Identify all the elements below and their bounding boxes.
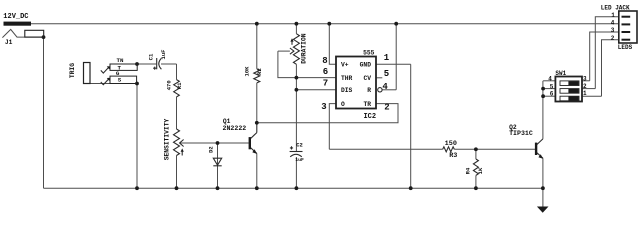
svg-text:10K: 10K (243, 66, 250, 77)
svg-text:D2: D2 (208, 146, 215, 153)
svg-text:1uF: 1uF (160, 50, 167, 60)
svg-text:SENSITIVITY: SENSITIVITY (164, 119, 171, 161)
svg-text:C1: C1 (147, 53, 154, 60)
svg-text:150: 150 (445, 140, 457, 148)
svg-text:555: 555 (363, 50, 375, 57)
svg-text:3: 3 (611, 27, 615, 34)
svg-text:470: 470 (165, 80, 172, 90)
svg-text:GND: GND (360, 62, 372, 69)
svg-text:1: 1 (611, 12, 615, 19)
svg-text:3: 3 (321, 102, 326, 112)
svg-text:1uF: 1uF (295, 157, 304, 163)
svg-text:O: O (341, 101, 345, 108)
svg-text:J1: J1 (5, 39, 13, 46)
svg-text:TRIG: TRIG (69, 63, 76, 78)
svg-text:4: 4 (382, 82, 388, 92)
svg-text:3: 3 (583, 75, 587, 82)
svg-text:2N2222: 2N2222 (223, 125, 247, 132)
svg-text:SW1: SW1 (555, 70, 566, 77)
svg-text:S: S (118, 76, 122, 83)
svg-text:DIS: DIS (341, 87, 353, 94)
svg-text:THR: THR (341, 75, 353, 82)
svg-text:4: 4 (611, 20, 615, 27)
svg-text:5: 5 (550, 83, 554, 90)
svg-text:2: 2 (384, 103, 389, 113)
svg-text:R4: R4 (465, 167, 472, 174)
svg-text:TN: TN (117, 57, 124, 64)
svg-text:6: 6 (323, 67, 328, 77)
svg-text:Q1: Q1 (223, 118, 231, 125)
svg-text:V+: V+ (341, 62, 349, 69)
svg-text:1: 1 (583, 90, 587, 97)
svg-text:8: 8 (322, 56, 327, 66)
svg-text:4: 4 (548, 76, 552, 83)
svg-text:R3: R3 (449, 152, 457, 160)
svg-text:2: 2 (583, 83, 587, 90)
svg-text:6: 6 (550, 91, 554, 98)
svg-text:TIP31C: TIP31C (509, 130, 533, 137)
svg-text:R2: R2 (256, 68, 263, 75)
svg-text:12V_DC: 12V_DC (3, 13, 28, 21)
svg-text:R: R (367, 87, 371, 94)
svg-text:LEDS: LEDS (618, 44, 633, 51)
svg-text:LED JACK: LED JACK (601, 5, 630, 12)
svg-text:C2: C2 (296, 142, 303, 149)
svg-text:1K: 1K (477, 167, 484, 174)
svg-text:TR: TR (363, 101, 371, 108)
svg-text:1: 1 (384, 53, 390, 63)
svg-text:5: 5 (384, 69, 389, 79)
svg-text:DURATION: DURATION (300, 33, 307, 63)
svg-text:IC2: IC2 (363, 113, 376, 121)
svg-text:7: 7 (323, 79, 328, 89)
svg-text:R1: R1 (176, 82, 183, 89)
svg-text:CV: CV (363, 75, 371, 82)
svg-text:2: 2 (611, 35, 615, 42)
